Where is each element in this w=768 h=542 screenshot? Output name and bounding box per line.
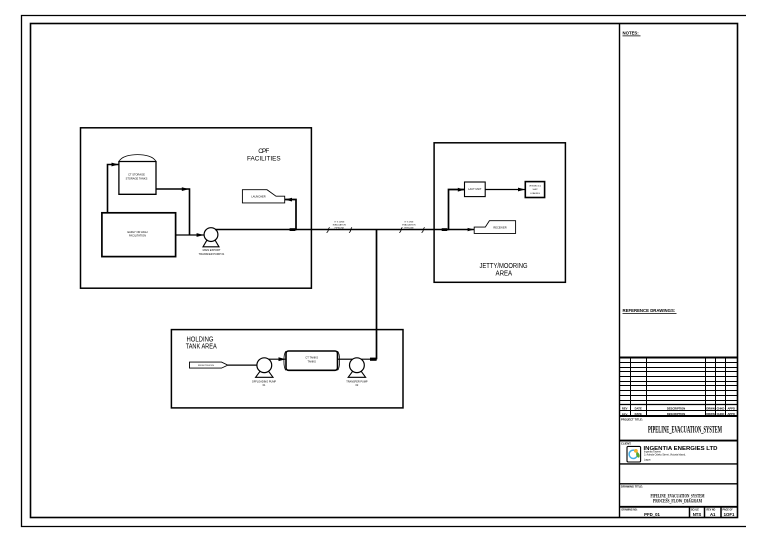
svg-text:FACILITIES: FACILITIES (247, 156, 281, 163)
arrow into pump P1 (197, 233, 204, 237)
main evacuation pipeline (215, 229, 474, 231)
wire facilities to pump P1 (176, 234, 205, 236)
svg-text:REV: REV (622, 412, 628, 416)
svg-text:1OF1: 1OF1 (724, 512, 735, 517)
svg-text:FACILITATION: FACILITATION (129, 234, 146, 238)
svg-text:CHKD: CHKD (717, 412, 725, 416)
svg-text:A1: A1 (710, 512, 716, 517)
svg-text:8" X 1KM: 8" X 1KM (405, 222, 414, 224)
wire launcher branch (285, 200, 296, 231)
notes heading (623, 31, 641, 36)
holding tank area label (186, 334, 217, 350)
svg-text:TANK AREA: TANK AREA (186, 342, 217, 351)
early production facilities box (102, 213, 176, 257)
wire branch to LACT unit (449, 190, 465, 231)
svg-text:FROM TRUCKS: FROM TRUCKS (198, 365, 215, 367)
jetty mooring area box (434, 143, 565, 282)
svg-text:PROJECT TITLE:: PROJECT TITLE: (621, 417, 643, 421)
wire facilities to tank (vertical) (108, 165, 120, 213)
svg-text:CLIENT:: CLIENT: (621, 442, 631, 446)
svg-text:CHKD: CHKD (717, 407, 725, 411)
svg-text:Lagos: Lagos (644, 458, 651, 461)
wire trucks to offloading pump (228, 364, 257, 366)
svg-text:TRANSFER PUMP: TRANSFER PUMP (346, 380, 368, 383)
svg-text:MAIN EXPORT: MAIN EXPORT (203, 248, 221, 252)
arrow into holding tank (279, 357, 286, 361)
spare box divider (620, 483, 738, 485)
wire transfer pump to riser (361, 358, 377, 360)
svg-text:EVACUATION: EVACUATION (402, 224, 416, 227)
svg-text:TANKS: TANKS (307, 359, 316, 363)
svg-text:LOADING: LOADING (530, 192, 540, 195)
wire tank outlet (156, 189, 190, 235)
svg-text:EVACUATION: EVACUATION (333, 224, 347, 227)
svg-text:RECEIVER: RECEIVER (493, 225, 506, 229)
svg-text:LACT UNIT: LACT UNIT (468, 187, 482, 191)
junction jetty tee (442, 228, 448, 231)
drawing title section (620, 485, 738, 507)
svg-text:DRWN: DRWN (706, 412, 714, 416)
pig receiver (474, 221, 515, 234)
svg-text:TRANSFER PUMP 01: TRANSFER PUMP 01 (199, 252, 225, 256)
holding tank area box (171, 330, 403, 408)
svg-text:EARLY OR HIGH: EARLY OR HIGH (127, 230, 147, 234)
arrow into tank (112, 163, 119, 167)
svg-text:CT STORAGE: CT STORAGE (128, 172, 145, 176)
svg-text:8" X 10KM: 8" X 10KM (334, 222, 344, 224)
svg-text:CT TANKS: CT TANKS (305, 355, 318, 359)
CPF facilities area label (247, 148, 281, 162)
svg-text:OFFLOADING PUMP: OFFLOADING PUMP (252, 380, 277, 383)
svg-text:REV: REV (622, 407, 628, 411)
svg-text:NTS: NTS (693, 512, 702, 517)
svg-text:APPD: APPD (727, 412, 735, 416)
holding tank T2 (284, 351, 340, 370)
svg-text:AREA: AREA (496, 269, 513, 278)
svg-text:CPF: CPF (258, 148, 269, 155)
project title section (620, 417, 738, 440)
svg-text:PROCESS_FLOW_DIAGRAM: PROCESS_FLOW_DIAGRAM (653, 499, 702, 505)
pump P1 main export (199, 228, 225, 256)
svg-text:LAUNCHER: LAUNCHER (251, 194, 265, 198)
svg-text:DESCRIPTION: DESCRIPTION (667, 407, 685, 411)
svg-text:DRWN: DRWN (706, 407, 714, 411)
arrow on tank outlet (182, 187, 189, 191)
pig launcher (242, 190, 284, 203)
vessel ship loading box (525, 182, 544, 198)
svg-text:SHIP: SHIP (532, 189, 538, 191)
company logo (627, 446, 641, 462)
svg-text:APPD: APPD (727, 407, 735, 411)
from trucks flag (190, 362, 228, 368)
svg-text:PIPELINE_EVACUATION_SYSTEM: PIPELINE_EVACUATION_SYSTEM (648, 424, 722, 434)
LACT unit box (465, 182, 486, 197)
arrow into receiver (468, 228, 474, 231)
pump P2 offloading (252, 358, 277, 387)
svg-text:NOTES:: NOTES: (623, 31, 640, 36)
storage tank T1 (119, 155, 156, 195)
jetty mooring area label (480, 261, 528, 278)
pipeline label 2 (399, 222, 424, 233)
CPF facilities area box (81, 128, 312, 288)
pipeline label 1 (327, 222, 352, 233)
revision table header row 2 (622, 412, 735, 416)
riser from holding tank area (376, 230, 378, 359)
svg-text:DATE: DATE (635, 412, 642, 416)
arrow into vessel (518, 188, 525, 192)
wire holding tank to transfer pump (338, 358, 354, 360)
revision table (620, 358, 738, 417)
svg-text:PIPELINE: PIPELINE (335, 228, 345, 230)
svg-text:DESCRIPTION: DESCRIPTION (667, 412, 685, 416)
revision table header row 1 (622, 407, 735, 411)
junction launcher tee (290, 228, 296, 231)
title block bottom row (690, 507, 722, 518)
svg-text:DATE: DATE (635, 407, 642, 411)
pump P3 transfer (346, 358, 368, 387)
svg-text:REFERENCE DRAWINGS:: REFERENCE DRAWINGS: (623, 308, 676, 313)
arrow into launcher (285, 198, 292, 202)
title block left divider (619, 24, 621, 518)
reference drawings heading (623, 308, 677, 314)
svg-text:DRAWING NO:: DRAWING NO: (622, 508, 638, 511)
svg-text:DRAWING TITLE:: DRAWING TITLE: (621, 485, 643, 489)
wire offloading pump to holding tank (269, 358, 287, 360)
arrow into LACT unit (458, 188, 465, 192)
wire LACT to vessel (485, 189, 525, 191)
svg-text:VESSELS &: VESSELS & (529, 185, 542, 187)
junction riser corner (370, 358, 377, 361)
svg-text:PFD_01: PFD_01 (644, 512, 660, 517)
svg-text:PIPELINE: PIPELINE (404, 228, 414, 230)
svg-text:STORAGE TANKS: STORAGE TANKS (126, 176, 148, 180)
svg-text:3, Adeola Odeku Street, Victor: 3, Adeola Odeku Street, Victoria Island, (644, 453, 686, 456)
company name and address (620, 446, 738, 464)
